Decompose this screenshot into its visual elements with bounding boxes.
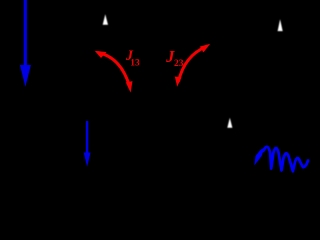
blue decay arrow A1 (left, thick, downward) [20, 0, 31, 87]
red coupling arrow J13 (curved, double-headed) [95, 51, 133, 93]
photon arrowhead [254, 148, 264, 166]
blue photon squiggle with arrowhead (lower right) [263, 147, 308, 171]
white pump arrowhead T2 (upper right) [278, 19, 283, 31]
label J13 [125, 48, 140, 69]
white pump arrowhead T3 (lower right-middle) [227, 118, 232, 128]
label J23 [165, 47, 184, 69]
blue decay arrow A2 (center, thin, downward) [84, 121, 91, 167]
white pump arrowhead T1 (upper middle) [103, 14, 108, 25]
red coupling arrow J23 (curved, double-headed) [175, 44, 210, 87]
svg-text:23: 23 [174, 58, 184, 69]
svg-text:13: 13 [130, 59, 140, 69]
